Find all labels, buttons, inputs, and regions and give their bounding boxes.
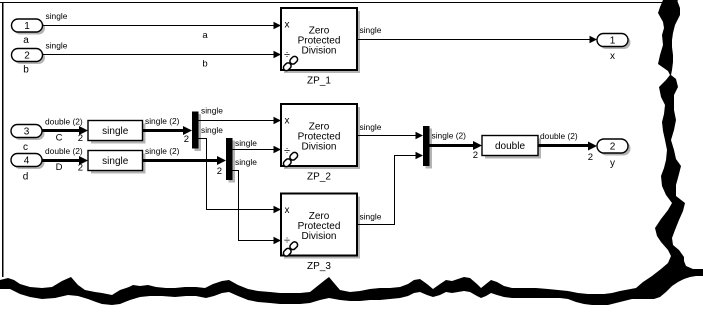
svg-text:Division: Division xyxy=(301,46,336,57)
svg-text:a: a xyxy=(202,30,208,41)
svg-text:2: 2 xyxy=(184,134,189,145)
svg-text:x: x xyxy=(285,116,290,127)
svg-text:C: C xyxy=(56,133,63,144)
svg-text:÷: ÷ xyxy=(284,235,290,247)
svg-text:Division: Division xyxy=(301,142,336,153)
svg-text:single: single xyxy=(102,126,129,137)
frame top border xyxy=(0,0,678,3)
svg-text:2: 2 xyxy=(78,133,83,144)
svg-text:x: x xyxy=(610,51,615,62)
block single1 (data type conversion) xyxy=(88,121,146,144)
svg-text:single: single xyxy=(360,212,382,222)
block ZP_3 (Zero Protected Division) xyxy=(281,194,360,273)
wire: demux1 out2 to ZP_3 x xyxy=(199,125,282,213)
wire: demux2 out1 to ZP_2 divide xyxy=(233,138,282,153)
wire: single2 to demux2, single (2) xyxy=(143,146,227,177)
svg-text:1: 1 xyxy=(24,21,30,32)
block ZP_2 (Zero Protected Division) xyxy=(281,104,360,183)
svg-text:d: d xyxy=(23,172,29,183)
wire: double to outport 2, double (2) xyxy=(538,131,597,163)
svg-text:Division: Division xyxy=(301,231,336,242)
inport 1 (a) xyxy=(12,19,46,46)
svg-text:2: 2 xyxy=(473,150,478,161)
outport 2 (y) xyxy=(597,139,631,169)
svg-text:2: 2 xyxy=(24,51,30,62)
svg-text:single: single xyxy=(235,157,257,167)
svg-text:single: single xyxy=(360,25,382,35)
svg-text:single: single xyxy=(46,41,68,51)
svg-text:x: x xyxy=(285,205,290,216)
svg-text:2: 2 xyxy=(217,166,222,177)
wire: ZP_3 out to mux in2 xyxy=(357,152,423,225)
svg-text:ZP_2: ZP_2 xyxy=(307,172,331,183)
svg-text:double (2): double (2) xyxy=(45,146,83,156)
svg-text:b: b xyxy=(202,59,207,70)
wire: ZP_1 out to outport 1 xyxy=(357,25,597,43)
svg-text:single: single xyxy=(201,125,223,135)
wire: demux2 out2 to ZP_3 divide xyxy=(233,157,282,244)
frame left border xyxy=(2,2,4,277)
svg-text:double (2): double (2) xyxy=(45,117,83,127)
svg-text:÷: ÷ xyxy=(284,49,290,61)
inport 3 (c) xyxy=(11,125,45,154)
demux1 bar xyxy=(192,112,201,152)
svg-text:double (2): double (2) xyxy=(540,131,578,141)
svg-text:4: 4 xyxy=(24,156,30,167)
wire D: inport 4 to single2, double (2) xyxy=(42,146,88,174)
svg-text:double: double xyxy=(495,141,525,152)
svg-text:x: x xyxy=(285,20,290,31)
wire: mux to double, single (2) xyxy=(430,131,483,162)
svg-text:y: y xyxy=(610,158,615,169)
inport 4 (d) xyxy=(11,154,45,183)
svg-text:ZP_3: ZP_3 xyxy=(307,261,331,272)
svg-text:single: single xyxy=(360,122,382,132)
svg-text:single: single xyxy=(46,11,68,21)
svg-text:3: 3 xyxy=(24,127,30,138)
svg-text:D: D xyxy=(56,162,63,173)
svg-text:a: a xyxy=(23,35,29,46)
svg-text:single: single xyxy=(201,106,223,116)
mux bar xyxy=(423,126,432,169)
wire: demux1 out1 to ZP_2 x xyxy=(199,106,282,125)
block double (data type conversion) xyxy=(482,136,541,159)
svg-text:b: b xyxy=(23,65,29,76)
svg-text:ZP_1: ZP_1 xyxy=(307,76,331,87)
wire: single1 to demux1, single (2) xyxy=(143,116,193,145)
demux2 bar xyxy=(226,138,235,183)
svg-text:single: single xyxy=(235,138,257,148)
wire C: inport 3 to single1, double (2) xyxy=(42,117,88,145)
svg-text:2: 2 xyxy=(588,152,593,163)
svg-text:single: single xyxy=(102,156,129,167)
svg-text:2: 2 xyxy=(610,142,616,153)
block ZP_1 (Zero Protected Division) xyxy=(281,8,360,87)
wire a: inport 1 to ZP_1 x xyxy=(43,11,282,41)
outport 1 (x) xyxy=(597,34,631,63)
svg-text:2: 2 xyxy=(78,163,83,174)
svg-text:single (2): single (2) xyxy=(145,116,180,126)
block single2 (data type conversion) xyxy=(88,151,146,174)
svg-text:÷: ÷ xyxy=(284,145,290,157)
svg-text:c: c xyxy=(23,142,28,153)
inport 2 (b) xyxy=(12,49,46,76)
svg-text:1: 1 xyxy=(610,36,616,47)
svg-text:single (2): single (2) xyxy=(432,131,467,141)
wire: ZP_2 out to mux in1 xyxy=(357,122,423,139)
wire b: inport 2 to ZP_1 divide xyxy=(43,41,282,70)
svg-text:single (2): single (2) xyxy=(145,146,180,156)
